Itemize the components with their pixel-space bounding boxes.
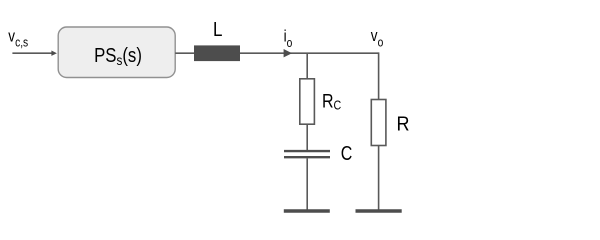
label R — [397, 114, 410, 136]
block U1 PS_s(s) — [58, 27, 175, 78]
svg-text:C: C — [341, 142, 353, 164]
label R_C — [322, 90, 342, 113]
arrowhead i_o — [284, 49, 292, 57]
label C — [341, 142, 353, 164]
label L — [213, 18, 222, 41]
node i_o label — [284, 27, 293, 50]
resistor R — [371, 100, 386, 146]
wire capacitor to ground — [306, 158, 308, 209]
ground right — [356, 209, 402, 212]
wire R to ground — [378, 146, 380, 210]
node v_o label — [371, 27, 383, 50]
svg-text:R: R — [397, 114, 410, 136]
wire input arrow — [12, 52, 51, 54]
wire box to inductor — [175, 52, 194, 54]
wire junction to RC — [306, 53, 308, 79]
capacitor C — [284, 151, 330, 157]
inductor L — [194, 45, 240, 61]
ground left — [284, 209, 330, 212]
wire RC to capacitor — [306, 124, 308, 150]
wire vo corner to R — [378, 52, 380, 99]
resistor RC — [300, 79, 315, 124]
svg-text:L: L — [213, 18, 222, 41]
node v_c,s label — [8, 27, 28, 49]
wire inductor to vo corner — [240, 52, 379, 54]
